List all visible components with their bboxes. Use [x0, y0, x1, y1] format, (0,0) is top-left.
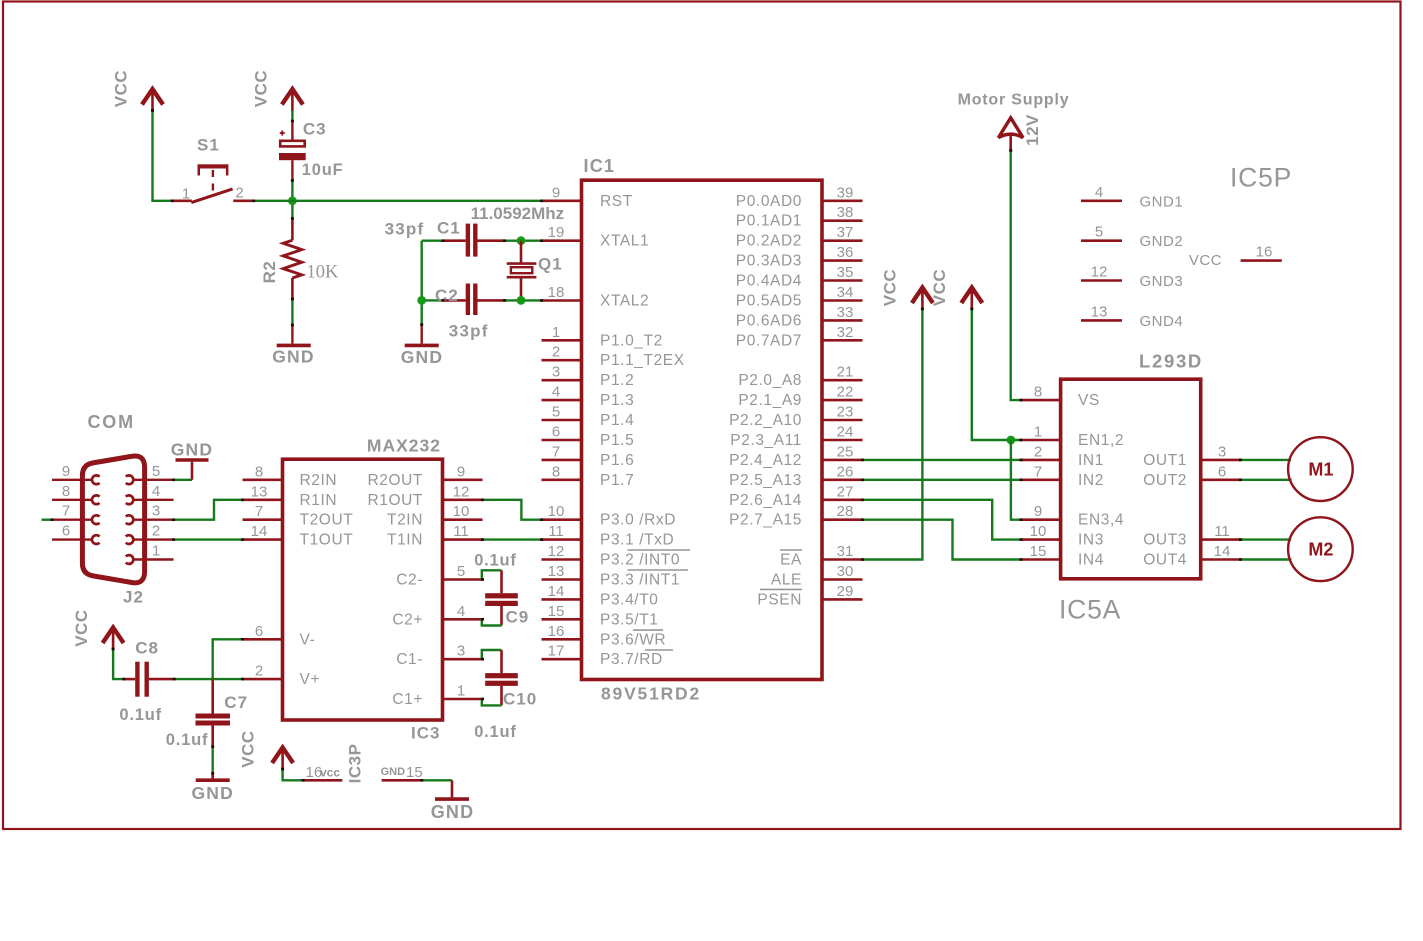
- label C8: [135, 639, 159, 658]
- svg-text:15: 15: [406, 764, 423, 781]
- ground symbol (R2): [277, 344, 311, 348]
- svg-text:vcc: vcc: [320, 766, 340, 780]
- connector J2 body (DB9): [82, 456, 144, 583]
- svg-text:P1.1_T2EX: P1.1_T2EX: [600, 352, 685, 369]
- svg-text:38: 38: [837, 204, 854, 221]
- svg-text:5: 5: [1095, 224, 1103, 241]
- svg-text:6: 6: [1218, 463, 1226, 480]
- wire XTAL2 net (C2 to pin 18): [422, 299, 542, 301]
- ground symbol (crystal): [405, 344, 439, 348]
- svg-text:19: 19: [548, 224, 565, 241]
- wire OUT4 to M2: [1241, 558, 1292, 560]
- svg-text:RST: RST: [600, 193, 633, 210]
- svg-text:P3.4/T0: P3.4/T0: [600, 591, 658, 608]
- svg-text:VCC: VCC: [112, 70, 131, 107]
- svg-text:GND: GND: [401, 347, 444, 367]
- svg-text:IC5P: IC5P: [1230, 163, 1292, 193]
- power symbol VCC (above C3): [282, 89, 303, 111]
- junction node EN supply: [1007, 436, 1016, 445]
- svg-text:13: 13: [1091, 303, 1108, 320]
- svg-text:C2: C2: [435, 286, 459, 305]
- svg-text:XTAL1: XTAL1: [600, 233, 649, 250]
- junction node XTAL1: [517, 236, 526, 245]
- wire EA to VCC: [863, 309, 923, 560]
- svg-text:C2+: C2+: [392, 611, 423, 628]
- svg-text:11.0592Mhz: 11.0592Mhz: [471, 204, 565, 223]
- motor M2: [1288, 517, 1353, 581]
- svg-text:P2.4_A12: P2.4_A12: [729, 452, 802, 469]
- wire OUT2 to M1: [1241, 479, 1292, 481]
- svg-text:P0.5AD5: P0.5AD5: [736, 293, 802, 310]
- svg-text:0.1uf: 0.1uf: [119, 706, 162, 724]
- svg-text:IN1: IN1: [1078, 452, 1104, 469]
- wire V- branch: [213, 639, 243, 679]
- power symbol VCC (enable): [961, 288, 982, 310]
- svg-text:IN4: IN4: [1078, 552, 1104, 569]
- svg-text:14: 14: [548, 583, 565, 600]
- svg-text:MAX232: MAX232: [367, 436, 441, 456]
- svg-text:C8: C8: [135, 639, 159, 658]
- svg-text:GND: GND: [381, 766, 406, 778]
- svg-text:T2OUT: T2OUT: [300, 512, 354, 529]
- wire VCC to EN1,2: [972, 309, 1021, 440]
- op-amp IC1 89V51RD2 body: [582, 180, 823, 679]
- svg-text:4: 4: [552, 384, 560, 401]
- capacitor C8 (0.1uf): [124, 662, 174, 697]
- svg-text:M2: M2: [1308, 540, 1333, 560]
- wire VCC to S1 pin 1: [153, 111, 173, 201]
- svg-text:8: 8: [1034, 384, 1042, 401]
- svg-text:C9: C9: [506, 607, 530, 626]
- svg-text:P3.6/WR: P3.6/WR: [600, 631, 666, 648]
- wire P2.6 to IN3: [863, 500, 1022, 540]
- wire XTAL1 net (C1 to pin 19): [422, 239, 542, 241]
- svg-text:P3.3 /INT1: P3.3 /INT1: [600, 572, 680, 589]
- wire C9 to C2+: [482, 619, 502, 625]
- svg-text:1: 1: [152, 543, 160, 560]
- value 0.1uf (C8): [119, 706, 162, 724]
- svg-text:34: 34: [837, 284, 854, 301]
- svg-text:10: 10: [1030, 523, 1047, 540]
- svg-text:P1.7: P1.7: [600, 472, 634, 489]
- label J2: [123, 588, 144, 607]
- svg-text:2: 2: [255, 663, 263, 680]
- value 0.1uf (C9): [474, 551, 517, 569]
- svg-text:10K: 10K: [307, 263, 340, 283]
- label VCC (IC3P): [239, 730, 258, 767]
- svg-text:3: 3: [552, 364, 560, 381]
- label C1: [437, 218, 461, 237]
- svg-text:IC3: IC3: [411, 724, 440, 743]
- svg-text:89V51RD2: 89V51RD2: [601, 684, 701, 704]
- svg-text:5: 5: [552, 404, 560, 421]
- svg-text:T1IN: T1IN: [387, 532, 423, 549]
- svg-text:GND: GND: [272, 347, 315, 367]
- svg-text:33: 33: [837, 304, 854, 321]
- svg-text:T2IN: T2IN: [387, 512, 423, 529]
- svg-text:P0.6AD6: P0.6AD6: [736, 312, 802, 329]
- svg-text:VCC: VCC: [239, 730, 258, 767]
- svg-text:GND: GND: [171, 440, 214, 460]
- svg-text:30: 30: [837, 563, 854, 580]
- IC5P pin names: [1140, 193, 1223, 330]
- svg-text:C10: C10: [503, 689, 537, 708]
- svg-text:R2IN: R2IN: [300, 472, 338, 489]
- wire R2 to GND: [291, 299, 293, 344]
- svg-text:0.1uf: 0.1uf: [166, 731, 209, 749]
- label M1: [1308, 460, 1333, 480]
- svg-text:27: 27: [837, 483, 854, 500]
- svg-text:29: 29: [837, 583, 854, 600]
- wire P2.4 to IN1: [863, 459, 1022, 461]
- pin name GND (IC3P): [381, 766, 406, 778]
- ground symbol (C7): [196, 778, 230, 782]
- svg-text:IN3: IN3: [1078, 532, 1104, 549]
- wire R1OUT to P3.0: [483, 500, 542, 520]
- svg-text:R2OUT: R2OUT: [367, 472, 423, 489]
- svg-text:11: 11: [548, 523, 564, 540]
- wire J2 pin3 to R1IN: [174, 500, 243, 520]
- label GND (crystal): [401, 347, 444, 367]
- svg-text:22: 22: [837, 384, 854, 401]
- label IC1: [584, 156, 616, 176]
- resistor R2: [283, 218, 302, 299]
- IC1 pin numbers: [548, 184, 854, 659]
- capacitor C10 (0.1uf): [485, 650, 518, 705]
- svg-text:10: 10: [548, 503, 565, 520]
- IC3 pin names: [300, 472, 424, 708]
- wire IC3P pin15 to GND: [422, 780, 452, 798]
- IC5A pin numbers: [1030, 384, 1231, 560]
- svg-text:2: 2: [1034, 443, 1042, 460]
- svg-text:8: 8: [62, 483, 70, 500]
- svg-text:0.1uf: 0.1uf: [474, 551, 517, 569]
- IC3P pin 15 stub: [382, 779, 422, 782]
- value 33pf (C1): [385, 220, 425, 239]
- svg-text:P2.5_A13: P2.5_A13: [729, 472, 802, 489]
- wire VCC to IC3P pin16: [283, 769, 303, 780]
- capacitor C7 (0.1uf): [196, 679, 231, 747]
- value 10K: [307, 263, 340, 283]
- svg-text:8: 8: [552, 463, 560, 480]
- svg-text:16: 16: [1256, 244, 1273, 261]
- IC5A pin stubs: [1021, 400, 1241, 559]
- label Motor Supply: [958, 92, 1070, 109]
- capacitor C2 (33pf): [443, 284, 505, 316]
- label GND (J2): [171, 440, 214, 460]
- svg-text:P1.0_T2: P1.0_T2: [600, 332, 663, 349]
- svg-text:7: 7: [1034, 463, 1042, 480]
- capacitor C1 (33pf): [443, 224, 505, 257]
- svg-text:P1.5: P1.5: [600, 432, 634, 449]
- svg-text:C3: C3: [303, 119, 327, 138]
- label C10: [503, 689, 537, 708]
- junction node XTAL2: [517, 296, 526, 305]
- svg-text:24: 24: [837, 424, 854, 441]
- svg-text:P1.2: P1.2: [600, 372, 634, 389]
- ground symbol (IC3P): [435, 797, 469, 801]
- svg-text:VCC: VCC: [930, 269, 949, 306]
- label L293D: [1139, 351, 1203, 372]
- svg-text:IC1: IC1: [584, 156, 616, 176]
- svg-text:P3.7/RD: P3.7/RD: [600, 651, 663, 668]
- label C3: [303, 119, 327, 138]
- svg-text:3: 3: [1218, 443, 1226, 460]
- svg-text:P1.4: P1.4: [600, 412, 634, 429]
- wire motor supply to VS: [1011, 151, 1021, 401]
- svg-text:IN2: IN2: [1078, 472, 1104, 489]
- svg-text:IC3P: IC3P: [346, 744, 365, 784]
- svg-text:P0.4AD4: P0.4AD4: [736, 273, 802, 290]
- label C7: [224, 693, 248, 712]
- label S1: [197, 136, 220, 155]
- svg-text:25: 25: [837, 443, 854, 460]
- label M2: [1308, 540, 1333, 560]
- svg-text:1: 1: [457, 683, 465, 700]
- svg-text:37: 37: [837, 224, 854, 241]
- value 0.1uf (C7): [166, 731, 209, 749]
- svg-text:36: 36: [837, 244, 854, 261]
- svg-text:P3.2 /INT0: P3.2 /INT0: [600, 552, 680, 569]
- pin number 2 (S1): [235, 185, 243, 202]
- label IC5A: [1059, 595, 1121, 625]
- svg-text:11: 11: [1214, 523, 1230, 540]
- svg-text:GND: GND: [191, 783, 234, 803]
- svg-text:GND: GND: [431, 802, 475, 822]
- wire J2 pin5 to GND: [174, 479, 193, 481]
- svg-text:P0.2AD2: P0.2AD2: [736, 233, 802, 250]
- wire P2.7 to IN4: [863, 520, 1022, 560]
- svg-text:12: 12: [548, 543, 565, 560]
- svg-text:26: 26: [837, 463, 854, 480]
- svg-text:7: 7: [552, 443, 560, 460]
- capacitor C9 (0.1uf): [485, 570, 518, 625]
- IC5P pin numbers: [1091, 184, 1273, 321]
- IC1 active-low overlines: [628, 550, 803, 650]
- svg-text:IC5A: IC5A: [1059, 595, 1121, 625]
- label VCC (enable): [930, 269, 949, 306]
- svg-text:Q1: Q1: [538, 255, 563, 274]
- svg-text:EN1,2: EN1,2: [1078, 432, 1124, 449]
- svg-text:15: 15: [548, 603, 565, 620]
- svg-text:OUT2: OUT2: [1143, 472, 1187, 489]
- svg-text:P3.5/T1: P3.5/T1: [600, 611, 658, 628]
- svg-text:R1IN: R1IN: [300, 492, 338, 509]
- label 12V: [1023, 114, 1042, 146]
- crystal Q1: [507, 241, 537, 301]
- svg-text:18: 18: [548, 284, 565, 301]
- pin number 15 (IC3P): [406, 764, 423, 781]
- svg-text:P1.3: P1.3: [600, 392, 634, 409]
- svg-text:C1: C1: [437, 218, 461, 237]
- op-amp IC3 MAX232 body: [283, 459, 443, 720]
- svg-text:GND3: GND3: [1140, 273, 1184, 290]
- svg-text:13: 13: [251, 483, 268, 500]
- wire P2.5 to IN2: [863, 479, 1022, 481]
- svg-text:4: 4: [1095, 184, 1103, 201]
- svg-text:10uF: 10uF: [302, 161, 344, 179]
- wire C3 to R2 node: [291, 180, 293, 218]
- svg-text:OUT1: OUT1: [1143, 452, 1187, 469]
- power symbol VCC (top-left): [142, 89, 163, 111]
- svg-text:V+: V+: [300, 671, 321, 688]
- pin number 1 (S1): [182, 186, 190, 203]
- IC5P pin stubs: [1081, 201, 1282, 321]
- svg-text:OUT4: OUT4: [1143, 552, 1187, 569]
- svg-text:Motor Supply: Motor Supply: [958, 92, 1070, 109]
- junction node C2-GND: [417, 296, 426, 305]
- svg-text:VCC: VCC: [252, 70, 271, 107]
- svg-text:OUT3: OUT3: [1143, 532, 1187, 549]
- pin connection points: [51, 109, 1243, 781]
- svg-text:XTAL2: XTAL2: [600, 293, 649, 310]
- svg-text:2: 2: [235, 185, 243, 202]
- label MAX232: [367, 436, 441, 456]
- svg-text:P2.6_A14: P2.6_A14: [729, 492, 802, 509]
- svg-text:PSEN: PSEN: [757, 591, 802, 608]
- node stub (J2 pin 7): [42, 519, 53, 521]
- motor M1: [1288, 437, 1353, 501]
- pin name vcc (IC3P): [320, 766, 340, 780]
- wire C1/C2 ground leg: [421, 241, 423, 325]
- svg-text:P0.7AD7: P0.7AD7: [736, 332, 802, 349]
- label VCC (above C3): [252, 70, 271, 107]
- svg-text:COM: COM: [88, 412, 135, 432]
- svg-text:9: 9: [62, 463, 70, 480]
- svg-text:1: 1: [552, 324, 560, 341]
- svg-text:P2.0_A8: P2.0_A8: [738, 372, 802, 389]
- label C2: [435, 286, 459, 305]
- svg-text:11: 11: [453, 523, 469, 540]
- wire T1IN to P3.1: [483, 538, 542, 540]
- svg-text:33pf: 33pf: [385, 220, 425, 239]
- svg-text:VCC: VCC: [881, 269, 900, 306]
- wire OUT1 to M1: [1241, 459, 1292, 461]
- svg-text:6: 6: [62, 523, 70, 540]
- svg-text:P2.2_A10: P2.2_A10: [729, 412, 802, 429]
- pin number 16 (IC3P): [306, 764, 323, 781]
- label C9: [506, 607, 530, 626]
- value 10uF: [302, 161, 344, 179]
- J2 socket contacts: [92, 475, 133, 564]
- svg-text:V-: V-: [300, 631, 316, 648]
- wire C10 to C1+: [482, 699, 502, 705]
- svg-text:3: 3: [457, 643, 465, 660]
- svg-text:17: 17: [548, 643, 565, 660]
- svg-text:23: 23: [837, 404, 854, 421]
- svg-text:35: 35: [837, 264, 854, 281]
- label VCC (EA): [881, 269, 900, 306]
- svg-text:31: 31: [837, 543, 854, 560]
- wire C2- to C9: [482, 570, 502, 579]
- wire J2 pin2 to T1OUT: [174, 538, 243, 540]
- svg-text:33pf: 33pf: [449, 321, 489, 340]
- label IC3: [411, 724, 440, 743]
- svg-text:P1.6: P1.6: [600, 452, 634, 469]
- wire C8 to V+: [174, 678, 242, 680]
- label IC3P: [346, 744, 365, 784]
- label COM: [88, 412, 135, 432]
- svg-text:14: 14: [1214, 543, 1231, 560]
- svg-text:3: 3: [152, 503, 160, 520]
- svg-text:C7: C7: [224, 693, 248, 712]
- svg-text:9: 9: [1034, 503, 1042, 520]
- ground symbol (J2): [176, 460, 209, 480]
- svg-text:P2.3_A11: P2.3_A11: [730, 432, 802, 449]
- svg-text:GND4: GND4: [1140, 313, 1184, 330]
- power symbol VCC (C8): [103, 628, 124, 650]
- svg-text:6: 6: [255, 623, 263, 640]
- label GND (R2): [272, 347, 315, 367]
- svg-text:7: 7: [255, 503, 263, 520]
- svg-text:P2.7_A15: P2.7_A15: [729, 512, 802, 529]
- wire C7 to GND: [211, 747, 213, 779]
- svg-text:7: 7: [62, 503, 70, 520]
- label GND (IC3P): [431, 802, 475, 822]
- svg-text:9: 9: [552, 184, 560, 201]
- value 11.0592Mhz (Q1): [471, 204, 565, 223]
- label Q1: [538, 255, 563, 274]
- svg-text:C1+: C1+: [392, 691, 423, 708]
- svg-text:8: 8: [255, 463, 263, 480]
- wire C1- to C10: [482, 650, 502, 659]
- svg-text:12: 12: [453, 483, 470, 500]
- svg-text:12V: 12V: [1023, 114, 1042, 146]
- svg-text:VCC: VCC: [1189, 252, 1222, 269]
- svg-text:5: 5: [152, 463, 160, 480]
- IC1 left pin stubs: [542, 201, 582, 659]
- wire EN junction to EN3,4: [1011, 440, 1021, 520]
- svg-text:39: 39: [837, 184, 854, 201]
- svg-text:13: 13: [548, 563, 565, 580]
- label R2: [260, 261, 279, 284]
- wire RST net to IC1 pin 9: [254, 200, 542, 202]
- svg-text:EN3,4: EN3,4: [1078, 512, 1124, 529]
- svg-text:10: 10: [453, 503, 470, 520]
- svg-text:14: 14: [251, 523, 268, 540]
- svg-text:4: 4: [457, 603, 465, 620]
- wire OUT3 to M2: [1241, 538, 1292, 540]
- IC1 right pin stubs: [822, 201, 863, 600]
- power symbol VCC (EA): [912, 288, 933, 310]
- svg-text:2: 2: [152, 523, 160, 540]
- IC3 pin numbers: [251, 463, 470, 699]
- svg-text:2: 2: [552, 344, 560, 361]
- svg-text:R1OUT: R1OUT: [367, 492, 423, 509]
- svg-text:GND1: GND1: [1140, 193, 1184, 210]
- svg-text:EA: EA: [780, 552, 802, 569]
- value 89V51RD2: [601, 684, 701, 704]
- svg-text:4: 4: [152, 483, 160, 500]
- IC3 pin stubs: [243, 480, 483, 699]
- svg-text:1: 1: [1034, 424, 1042, 441]
- capacitor C3 (polarized 10uF): [279, 130, 306, 180]
- svg-text:P0.0AD0: P0.0AD0: [736, 193, 802, 210]
- svg-text:9: 9: [457, 463, 465, 480]
- svg-text:15: 15: [1030, 543, 1047, 560]
- svg-text:S1: S1: [197, 136, 220, 155]
- svg-text:VCC: VCC: [72, 609, 91, 646]
- J2 pin stubs: [52, 480, 174, 560]
- value 0.1uf (C10): [474, 723, 517, 741]
- value 33pf (C2): [449, 321, 489, 340]
- svg-text:ALE: ALE: [771, 572, 802, 589]
- op-amp IC5A L293D body: [1061, 379, 1201, 579]
- junction node RST net: [288, 196, 297, 205]
- label GND (C7): [191, 783, 234, 803]
- svg-text:P0.3AD3: P0.3AD3: [736, 253, 802, 270]
- svg-text:P2.1_A9: P2.1_A9: [738, 392, 802, 409]
